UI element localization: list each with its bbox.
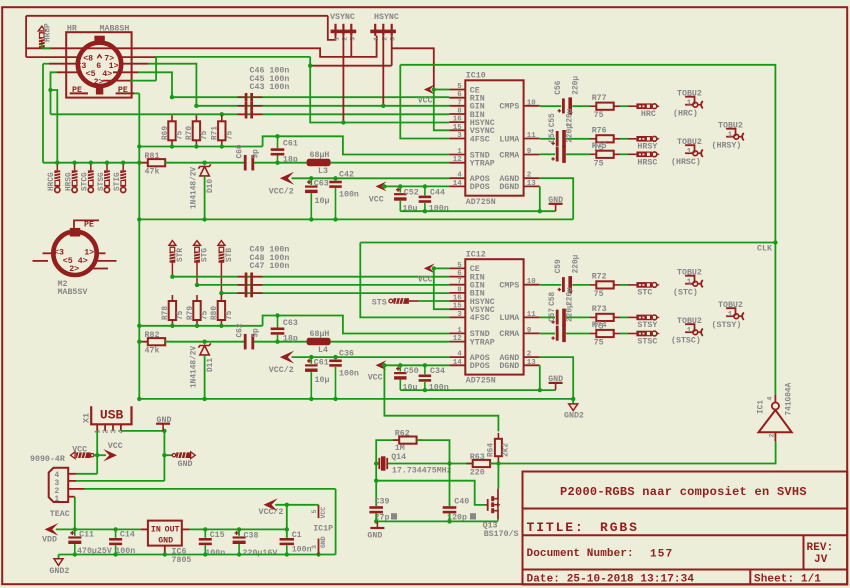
capacitor C44 bbox=[424, 186, 426, 195]
svg-text:68µH: 68µH bbox=[310, 151, 330, 160]
svg-text:8: 8 bbox=[457, 108, 462, 116]
ground GND USB bbox=[156, 423, 170, 425]
wire STS stub bbox=[409, 300, 419, 302]
wire Q13 source to gnd bbox=[497, 520, 499, 522]
svg-text:C62: C62 bbox=[237, 323, 245, 337]
junction C63b top bbox=[275, 313, 279, 317]
wire M1 pin3 bbox=[43, 63, 49, 65]
IC10 pin 6 stub bbox=[449, 97, 465, 99]
wire HRCG riser bbox=[51, 90, 58, 163]
IC12 pin 8 stub bbox=[449, 292, 465, 294]
capacitor C40 plates bbox=[443, 506, 457, 513]
IC12 pin 15 stub bbox=[449, 308, 465, 310]
junction VSYNC pin2/HSYNC line bbox=[341, 120, 345, 124]
supply VCC arrow USB bbox=[103, 449, 117, 462]
svg-text:C47 100n: C47 100n bbox=[250, 262, 290, 271]
svg-text:11: 11 bbox=[527, 311, 537, 319]
svg-text:10µ: 10µ bbox=[403, 205, 418, 214]
wire bottom ground bus bbox=[59, 554, 336, 556]
svg-text:VCC/2: VCC/2 bbox=[259, 507, 284, 517]
svg-text:4FSC: 4FSC bbox=[470, 135, 490, 144]
svg-text:C36: C36 bbox=[339, 350, 354, 359]
connector STC jack bbox=[636, 282, 660, 288]
supply VDD arrow bbox=[45, 523, 59, 536]
M1 pin 2 stub bbox=[103, 80, 131, 82]
svg-text:5: 5 bbox=[457, 262, 462, 270]
resistor R74 bbox=[590, 330, 620, 337]
svg-text:GND: GND bbox=[548, 196, 563, 205]
wire R62 left bbox=[376, 440, 399, 463]
op-amp IC10 AD725 box bbox=[465, 80, 523, 195]
svg-text:GND: GND bbox=[320, 536, 327, 548]
svg-text:C63: C63 bbox=[283, 319, 298, 328]
IC10 pin 7 stub bbox=[449, 105, 465, 107]
svg-text:C42: C42 bbox=[339, 171, 354, 180]
resistor R79 bbox=[193, 295, 200, 326]
svg-text:R70: R70 bbox=[186, 126, 194, 140]
M1 pin 5 stub bbox=[57, 71, 82, 73]
svg-text:1: 1 bbox=[728, 311, 733, 319]
resistor R63 bbox=[466, 460, 496, 467]
svg-text:GND: GND bbox=[157, 416, 172, 425]
wire VCC to VSYNC pin15 bbox=[434, 90, 449, 131]
TEAC pin 3 stub bbox=[68, 480, 76, 482]
capacitor C48 bbox=[238, 281, 263, 289]
junction STG bbox=[195, 283, 199, 287]
IC10 pin 11 stub bbox=[524, 138, 540, 140]
resistor R80 bbox=[218, 295, 225, 326]
wire to R82 bbox=[139, 341, 148, 343]
svg-text:2: 2 bbox=[55, 488, 60, 496]
capacitor C50 plates bbox=[394, 367, 407, 380]
resistor R72 bbox=[590, 281, 620, 288]
wire to GND jumper bbox=[164, 454, 172, 456]
bus wire vertical at left bbox=[25, 16, 27, 57]
wire BIN line channel2 bbox=[221, 292, 449, 294]
wire C55 in bbox=[540, 138, 555, 140]
svg-text:17.734475MHz: 17.734475MHz bbox=[392, 467, 452, 476]
svg-text:VCC: VCC bbox=[368, 373, 383, 382]
svg-text:1M: 1M bbox=[395, 444, 405, 453]
connector M1 circle bbox=[78, 43, 121, 86]
junction C38 bottom bbox=[237, 552, 241, 556]
wire HSYNC pin3 down bbox=[391, 36, 393, 66]
wire 7805 output rail bbox=[190, 528, 287, 530]
svg-text:BS170/S: BS170/S bbox=[484, 529, 519, 539]
svg-text:220: 220 bbox=[470, 469, 485, 478]
capacitor C15 plates bbox=[199, 538, 212, 545]
svg-text:(STSY): (STSY) bbox=[712, 320, 742, 330]
wire R73 out bbox=[620, 316, 628, 318]
wire R64 to Q13 drain bbox=[497, 464, 499, 489]
capacitor C14 plates bbox=[109, 538, 122, 545]
IC12 pin 10 stub bbox=[524, 284, 540, 286]
IC10 pin 10 stub bbox=[524, 105, 540, 107]
svg-text:3: 3 bbox=[457, 132, 462, 140]
M2 pin 3 stub bbox=[43, 252, 57, 254]
IC12 pin 3 stub bbox=[449, 316, 465, 318]
junction VCC node channel1 bbox=[382, 184, 386, 188]
junction HSYNC pin2/GIN line bbox=[381, 104, 385, 108]
IC12 pin 14 stub bbox=[449, 364, 465, 366]
connector TEAC bbox=[49, 468, 68, 502]
svg-text:STC: STC bbox=[637, 289, 652, 298]
jumper STSG bbox=[104, 170, 110, 192]
IC10 pin 2 stub bbox=[524, 177, 540, 179]
M2 pin 4 stub bbox=[97, 260, 117, 262]
junction PE vertical/ground bus1 bbox=[137, 217, 141, 221]
wire M1 pin5 to BIN line bbox=[51, 72, 58, 114]
supply VCC/2 arrow bottom bbox=[264, 498, 278, 511]
junction crystal right bbox=[447, 461, 451, 465]
svg-text:1: 1 bbox=[95, 429, 103, 433]
capacitor C38 plates bbox=[233, 531, 246, 544]
wire R81 to C60 bbox=[165, 162, 245, 164]
IC1 pin 2 stub bbox=[774, 432, 776, 441]
svg-text:IN: IN bbox=[151, 526, 161, 535]
svg-text:1: 1 bbox=[687, 327, 692, 335]
svg-text:VCC/2: VCC/2 bbox=[269, 186, 294, 196]
resistor R81 bbox=[142, 159, 172, 166]
junction C11/TEAC1 bbox=[73, 527, 77, 531]
svg-text:R78: R78 bbox=[162, 306, 170, 320]
svg-text:4: 4 bbox=[767, 397, 774, 401]
capacitor C43 bbox=[238, 110, 263, 118]
resistor R73 bbox=[590, 314, 620, 321]
wire R74 out bbox=[620, 333, 628, 335]
svg-text:VCC: VCC bbox=[418, 96, 433, 105]
svg-text:HR8P: HR8P bbox=[45, 23, 53, 42]
svg-text:REV:: REV: bbox=[807, 542, 834, 554]
svg-text:GND2: GND2 bbox=[564, 412, 584, 421]
wire RIN line channel2 bbox=[172, 276, 449, 278]
crystal Q14 bbox=[379, 456, 387, 470]
wire APOS line channel1 bbox=[292, 177, 450, 179]
svg-text:1: 1 bbox=[728, 132, 733, 140]
jumper JP VSYNC bbox=[331, 24, 357, 36]
wire STB stub bbox=[220, 263, 222, 294]
svg-text:C44: C44 bbox=[430, 188, 445, 197]
svg-text:DGND: DGND bbox=[499, 183, 519, 192]
svg-text:HRSY: HRSY bbox=[637, 143, 657, 152]
svg-text:4>: 4> bbox=[102, 70, 112, 79]
svg-text:IC1P: IC1P bbox=[313, 525, 333, 534]
IC12 pin 9 stub bbox=[524, 332, 540, 334]
svg-text:9: 9 bbox=[527, 327, 532, 335]
svg-text:C40: C40 bbox=[454, 498, 469, 507]
svg-text:3: 3 bbox=[457, 311, 462, 319]
wire ground bus to R81 bbox=[43, 162, 148, 164]
jumper STIG bbox=[120, 170, 126, 192]
svg-text:157: 157 bbox=[650, 549, 673, 561]
wire HR8P green bit bbox=[42, 47, 51, 49]
wire HR8P stub bbox=[41, 41, 43, 44]
wire VCC to VSYNC2 bbox=[434, 268, 449, 309]
svg-text:HRCG: HRCG bbox=[48, 172, 56, 191]
wire to jack bbox=[628, 316, 636, 318]
svg-text:STR: STR bbox=[177, 248, 185, 262]
svg-text:3: 3 bbox=[110, 429, 118, 433]
svg-text:GND: GND bbox=[548, 375, 563, 384]
wire M2 PE bbox=[74, 220, 99, 228]
svg-text:DPOS: DPOS bbox=[470, 183, 490, 192]
wire crystal to R63 bbox=[388, 463, 473, 465]
capacitor C52 plates bbox=[394, 188, 407, 201]
wire to jack bbox=[628, 105, 636, 107]
junction GND2 tap bbox=[571, 397, 575, 401]
svg-text:10µ: 10µ bbox=[315, 376, 330, 385]
svg-text:68µH: 68µH bbox=[310, 330, 330, 339]
junction C11 bottom bbox=[73, 552, 77, 556]
wire C58 in bbox=[540, 316, 555, 318]
supply VCC arrow IC12 DPOS bbox=[376, 360, 387, 370]
svg-text:P2000-RGBS naar composiet en S: P2000-RGBS naar composiet en SVHS bbox=[560, 485, 807, 499]
svg-text:75: 75 bbox=[177, 310, 185, 320]
wire GND USB stub bbox=[162, 424, 164, 431]
svg-text:C55: C55 bbox=[549, 113, 557, 127]
wire ground return channel2 bbox=[400, 389, 555, 391]
wire M1 pin2 bbox=[131, 80, 156, 82]
bus wire step to VSYNC pin1 bbox=[328, 16, 336, 40]
svg-text:DPOS: DPOS bbox=[470, 362, 490, 371]
IC10 pin 8 stub bbox=[449, 113, 465, 115]
IC10 pin 9 stub bbox=[524, 154, 540, 156]
capacitor C49 bbox=[238, 273, 263, 281]
testpoint TOBU2 (HRSC) bbox=[685, 145, 703, 157]
svg-text:9090-4R: 9090-4R bbox=[30, 455, 65, 464]
junction HRSG bbox=[72, 161, 76, 165]
IC10 pin 12 stub bbox=[449, 162, 465, 164]
junction C34 top bbox=[423, 363, 427, 367]
wire USB pin4 to GND bbox=[121, 430, 164, 432]
inverter IC1 741G04A bbox=[759, 402, 792, 432]
svg-text:DGND: DGND bbox=[499, 362, 519, 371]
wire ground return channel1 bbox=[400, 210, 555, 212]
svg-text:HR: HR bbox=[67, 25, 77, 34]
svg-text:R72: R72 bbox=[592, 273, 607, 282]
IC10 pin 5 stub bbox=[449, 89, 465, 91]
svg-text:1: 1 bbox=[687, 100, 692, 108]
svg-text:(HRC): (HRC) bbox=[673, 109, 698, 119]
IC12 pin 7 stub bbox=[449, 284, 465, 286]
capacitor C50 bbox=[399, 365, 401, 371]
capacitor C1 plates bbox=[280, 538, 295, 545]
junction CE2 node bbox=[432, 266, 436, 270]
capacitor C42 bbox=[335, 178, 337, 180]
svg-text:HRSC: HRSC bbox=[637, 158, 657, 167]
svg-text:16: 16 bbox=[453, 295, 463, 303]
svg-text:75: 75 bbox=[177, 130, 185, 140]
supply VCC arrow IC10 CE bbox=[424, 85, 435, 95]
svg-text:18p: 18p bbox=[283, 156, 298, 165]
junction C44 bottom bbox=[423, 209, 427, 213]
svg-text:18p: 18p bbox=[283, 335, 298, 344]
svg-text:100n: 100n bbox=[429, 205, 449, 214]
svg-text:R80: R80 bbox=[211, 306, 219, 320]
svg-text:100n: 100n bbox=[339, 191, 359, 200]
ground GND2 right bbox=[569, 404, 578, 411]
wire C62 to L4 bbox=[254, 341, 307, 343]
svg-text:LUMA: LUMA bbox=[499, 135, 519, 144]
IC10 pin 14 stub bbox=[449, 185, 465, 187]
IC10 pin 3 stub bbox=[449, 138, 465, 140]
wire to TEAC pin4 bbox=[76, 473, 97, 475]
junction gnd jumper bbox=[162, 453, 166, 457]
svg-text:R62: R62 bbox=[395, 429, 410, 438]
junction CLK bbox=[773, 240, 777, 244]
connector M1 top notch bbox=[94, 36, 104, 44]
svg-text:GND: GND bbox=[178, 460, 193, 469]
svg-text:STSC: STSC bbox=[637, 337, 657, 346]
junction R71 bottom bbox=[220, 144, 224, 148]
svg-text:L3: L3 bbox=[318, 167, 328, 176]
bus wire to HSYNC pin1 bbox=[26, 36, 377, 57]
resistor R75 bbox=[590, 151, 620, 158]
svg-text:220µ: 220µ bbox=[566, 303, 574, 322]
bus wire to CE node bbox=[392, 48, 434, 89]
svg-text:7: 7 bbox=[457, 278, 462, 286]
svg-text:C52: C52 bbox=[404, 188, 419, 197]
svg-text:C14: C14 bbox=[120, 530, 135, 539]
junction STR bbox=[170, 275, 174, 279]
ground GND osc bbox=[370, 527, 384, 529]
svg-text:1: 1 bbox=[373, 37, 380, 41]
svg-text:7: 7 bbox=[457, 99, 462, 107]
svg-text:RGBS: RGBS bbox=[600, 520, 639, 535]
svg-text:1: 1 bbox=[55, 496, 60, 504]
wire C57 to R74 bbox=[566, 333, 590, 335]
capacitor C63 bbox=[310, 178, 312, 185]
wire VSYNC pin2 down bbox=[342, 36, 344, 123]
junction CE node bbox=[432, 87, 436, 91]
svg-text:1N4148/2V: 1N4148/2V bbox=[190, 167, 198, 209]
svg-text:2: 2 bbox=[381, 37, 388, 41]
capacitor C63 plates bbox=[305, 180, 318, 193]
svg-text:2k2: 2k2 bbox=[503, 443, 511, 457]
junction C14 top bbox=[113, 527, 117, 531]
wire ground bus channel1 bbox=[139, 218, 573, 220]
svg-text:HSYNC: HSYNC bbox=[374, 13, 399, 22]
wire STSG stub bbox=[106, 163, 108, 171]
connector HRSY jack bbox=[636, 136, 660, 142]
capacitor C38 bbox=[238, 529, 240, 536]
connector STSY jack bbox=[636, 315, 660, 321]
7805 IN stub bbox=[141, 528, 148, 530]
svg-text:47k: 47k bbox=[145, 346, 160, 356]
wire R63 out bbox=[490, 463, 498, 465]
capacitor C42 plates bbox=[329, 181, 342, 188]
junction IC1P gnd bbox=[316, 552, 320, 556]
svg-text:220µ: 220µ bbox=[573, 254, 581, 273]
svg-text:12: 12 bbox=[453, 335, 463, 343]
capacitor C1 bbox=[286, 529, 288, 537]
junction crystal left bbox=[374, 461, 378, 465]
svg-text:9p: 9p bbox=[253, 149, 261, 159]
M1 pin 8 stub bbox=[26, 56, 79, 58]
capacitor C11 plates bbox=[68, 531, 81, 544]
ground GND channel2 bbox=[549, 382, 563, 384]
svg-text:220µ: 220µ bbox=[566, 287, 574, 306]
junction STIG bbox=[121, 161, 125, 165]
resistor R64 bbox=[495, 433, 502, 462]
svg-text:R75: R75 bbox=[592, 142, 607, 151]
testpoint TOBU2 (HRC) bbox=[685, 97, 703, 109]
svg-text:12: 12 bbox=[453, 156, 463, 164]
capacitor C63 channel2 18p bbox=[271, 316, 285, 342]
wire CE bbox=[434, 89, 449, 91]
wire R77 out bbox=[620, 105, 628, 107]
connector M1 MAB8SH box bbox=[66, 32, 131, 97]
svg-text:1: 1 bbox=[457, 148, 462, 156]
resistor R69 bbox=[168, 115, 175, 146]
junction C61 top bbox=[275, 134, 279, 138]
svg-text:2: 2 bbox=[527, 351, 532, 359]
connector STSC jack bbox=[636, 331, 660, 337]
svg-text:3: 3 bbox=[349, 37, 356, 41]
svg-text:C54: C54 bbox=[549, 128, 557, 142]
wire to jack bbox=[628, 284, 636, 286]
wire DGND drop channel1 bbox=[539, 186, 541, 211]
junction R70 bottom bbox=[194, 144, 198, 148]
wire M1 pin3 down to ground bus bbox=[42, 64, 44, 163]
capacitor C15 bbox=[204, 529, 206, 537]
junction C39 bottom bbox=[374, 519, 378, 523]
capacitor C62 bbox=[244, 334, 254, 350]
svg-text:47k: 47k bbox=[145, 167, 160, 177]
svg-text:VCC: VCC bbox=[369, 196, 384, 205]
svg-text:AD725N: AD725N bbox=[466, 198, 496, 207]
resistor R62 bbox=[393, 437, 423, 444]
svg-text:D11: D11 bbox=[207, 358, 215, 372]
svg-text:3: 3 bbox=[390, 37, 397, 41]
capacitor C60 bbox=[244, 155, 254, 171]
capacitor C44 plates bbox=[419, 196, 432, 203]
svg-text:100n: 100n bbox=[292, 546, 312, 555]
inductor L3 bbox=[307, 159, 331, 167]
svg-text:C34: C34 bbox=[430, 367, 445, 376]
junction C63b bottom bbox=[275, 340, 279, 344]
junction C63 bottom bbox=[309, 217, 313, 221]
svg-text:STSY: STSY bbox=[637, 321, 657, 330]
regulator IC6 7805 box bbox=[148, 521, 182, 546]
svg-text:3: 3 bbox=[311, 545, 318, 549]
svg-text:AD725N: AD725N bbox=[466, 377, 496, 386]
svg-text:HRSG: HRSG bbox=[65, 172, 73, 191]
svg-text:75: 75 bbox=[594, 111, 604, 120]
wire to Q13 gate bbox=[376, 481, 485, 505]
junction HRCG bbox=[55, 161, 59, 165]
svg-text:OUT: OUT bbox=[165, 526, 180, 535]
svg-text:C39: C39 bbox=[375, 498, 390, 507]
connector HRSC jack bbox=[636, 152, 660, 158]
wire L4 to YTRAP2 bbox=[331, 341, 450, 343]
junction D10 top bbox=[202, 161, 206, 165]
wire HR8P to bus bbox=[41, 44, 43, 48]
svg-text:R76: R76 bbox=[592, 127, 607, 136]
svg-text:220µ: 220µ bbox=[566, 124, 574, 143]
svg-text:(STC): (STC) bbox=[673, 288, 698, 298]
junction C15 bottom bbox=[203, 552, 207, 556]
connector M2 circle bbox=[53, 232, 96, 275]
svg-text:STIG: STIG bbox=[114, 172, 122, 191]
wire C60 to L3 bbox=[254, 162, 307, 164]
wire R76 out bbox=[620, 138, 628, 140]
jumper STS bbox=[389, 298, 409, 304]
wire ground bus channel2 bbox=[139, 398, 573, 400]
wire VCC/2 to IC1P bbox=[275, 504, 315, 506]
wire to jack bbox=[628, 333, 636, 335]
svg-text:PE: PE bbox=[84, 220, 94, 229]
